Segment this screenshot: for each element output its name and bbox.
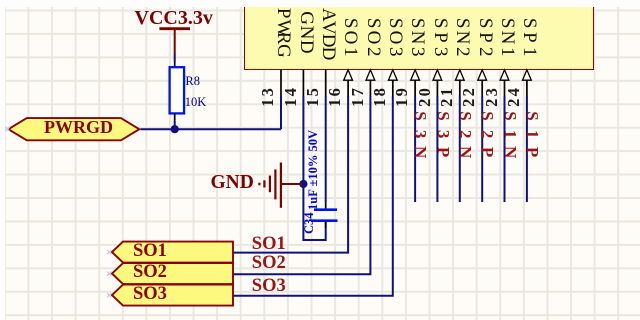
capacitor C34 top lead [325,203,327,209]
net label S3P [435,107,452,161]
junction GND [299,180,307,188]
capacitor C34 bottom lead [325,222,327,228]
wire SO3 net [233,96,393,295]
pin number 21 [439,87,456,108]
capacitor C34 bottom plate [311,219,338,222]
pin 14 lead [302,69,304,97]
wire VCC to R8 [174,54,176,62]
wire S1P net [526,96,528,202]
pin name SP1 [520,16,539,59]
pin 13 lead [280,69,282,97]
port PWRGD text [44,118,113,136]
value 1uF 10% 50V [307,129,320,209]
pin 20 lead [436,80,438,96]
pin name SO1 [341,16,360,59]
wire S3P net [436,96,438,202]
net label SO2 [252,254,286,273]
port SO1 tip marker [107,250,111,254]
designator C34 [303,212,316,234]
pin 19 arrow [411,70,420,80]
port SO2 body [112,263,233,284]
pin number 20 [417,87,434,108]
net label S2P [479,107,496,161]
pin name SP3 [431,16,450,59]
pin names clip [0,0,640,67]
port SO2 text [133,263,167,282]
power port GND bar 1 [280,163,282,208]
component box [244,7,594,70]
resistor R8 body [170,67,185,113]
pin number 23 [484,87,501,108]
pin name SO2 [364,16,383,59]
power port GND stem [281,183,302,185]
power label GND [211,173,254,193]
pin 17 arrow [366,70,375,80]
pin 16 arrow [344,70,353,80]
pin 16 lead [347,80,349,96]
pin name SP2 [476,16,495,59]
pin name SN2 [453,16,472,59]
net label S1P [524,107,541,161]
wire SO2 net [233,96,370,274]
pin 22 lead [481,80,483,96]
pin 18 lead [392,80,394,96]
port SO2 tip marker [107,271,111,275]
wire PWRGD net [141,128,282,130]
net label S2N [457,107,474,161]
pin 19 lead [414,80,416,96]
designator R8 [185,75,200,88]
power label VCC3.3v [135,8,213,28]
pin number 18 [372,87,389,108]
pin 21 lead [459,80,461,96]
port SO1 text [133,242,167,261]
wire GND net from pin 14 [303,96,325,240]
power port GND bar 3 [269,176,271,193]
net label SO3 [252,277,286,296]
wire S2P net [481,96,483,202]
power port GND bar 4 [263,180,265,187]
port SO3 body [112,285,233,306]
wire R8 to junction [174,121,176,130]
power port VCC3.3v stem [174,30,176,55]
pin 17 lead [369,80,371,96]
wire up to pin 13 [280,96,282,129]
power port VCC3.3v bar [159,27,190,30]
pin 24 lead [526,80,528,96]
pin 15 lead [325,69,327,97]
pin number 22 [461,87,478,108]
port PWRGD body [8,118,139,140]
wire SO1 net [233,96,348,252]
value 10K [185,96,207,109]
net label SO1 [252,235,286,254]
port SO3 tip marker [107,293,111,297]
net label S1N [502,107,519,161]
pin 21 arrow [455,70,464,80]
pin 22 arrow [478,70,487,80]
port PWRGD tip marker [5,127,9,131]
wire S1N net [504,96,506,202]
power port GND bar 2 [274,169,276,199]
power port GND dot [258,183,260,186]
pin name PWRGD [274,7,293,69]
pin name SO3 [386,16,405,59]
pin name GND [297,11,316,54]
wire pin 15 to C34 [325,96,327,202]
net label S3N [412,107,429,161]
junction PWRGD/R8 [171,125,179,133]
pin lead R8 bottom [174,113,176,120]
pin number 17 [350,87,367,108]
pin number 15 [305,87,322,108]
port SO1 body [112,242,233,263]
pin name SN1 [498,16,517,59]
sheet margin left [0,0,5,320]
pin lead R8 top [174,62,176,68]
pin 20 arrow [433,70,442,80]
pin number 19 [394,87,411,108]
pin name AVDD [319,8,338,60]
pin number 14 [283,87,300,108]
wire S2N net [459,96,461,202]
pin name SN3 [408,16,427,59]
wire S3N net [414,96,416,202]
pin number 24 [506,87,523,108]
pin 23 arrow [500,70,509,80]
port SO3 text [133,285,167,304]
pin 23 lead [504,80,506,96]
pin 18 arrow [388,70,397,80]
sheet margin top [0,0,640,7]
pin number 16 [327,87,344,108]
capacitor C34 top plate [314,208,337,211]
pin 24 arrow [523,70,532,80]
pin number 13 [260,87,277,108]
